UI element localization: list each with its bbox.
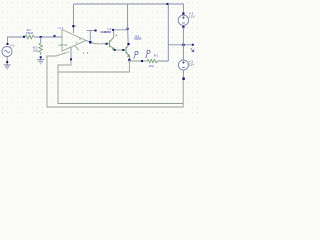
node: Q2 base junction: [122, 49, 124, 51]
wire: R1 to opamp: [34, 36, 62, 38]
svg-text:12V: 12V: [189, 63, 195, 67]
wire: pin 4 drop: [70, 47, 72, 60]
node: collector rail junction: [127, 28, 129, 30]
node: VS ground junction: [6, 61, 8, 63]
op-amp U1 triangle: [62, 30, 86, 52]
node: V2 top pin: [182, 13, 184, 15]
probe arrow glyph: [191, 48, 194, 51]
resistor R1 (horizontal): [25, 35, 34, 39]
wire: mid horizontal net: [168, 44, 193, 46]
source V2 (DC): [178, 15, 188, 25]
probe 2 circle: [146, 50, 150, 58]
transistor Q1: [108, 37, 115, 49]
wire: V3 bottom: [182, 70, 184, 79]
svg-text:10kΩ: 10kΩ: [26, 31, 33, 35]
node: rail branch junction: [167, 3, 169, 5]
node: VS top pin: [7, 43, 9, 45]
wire: offset pin 1 diagonal: [47, 53, 183, 107]
node: probe end: [192, 44, 194, 46]
wire: V2 to V3 column: [182, 27, 184, 60]
node: Q1 collector mark: [112, 29, 114, 31]
node: Q1 base junction: [106, 43, 108, 45]
node: R2 branch junction: [40, 36, 42, 38]
wire: Q1 collector riser: [114, 30, 128, 38]
ground (under VS): [4, 63, 11, 69]
wire: Q2 emitter drop: [128, 56, 130, 61]
offset pin 5 stub: [75, 46, 80, 51]
node: mid junction: [182, 44, 184, 46]
resistor W1 (horizontal): [147, 59, 157, 62]
svg-text:uA741: uA741: [58, 43, 68, 47]
ground (under R2): [37, 58, 44, 64]
wire: emitter to W1: [129, 60, 147, 62]
wire: VS top lead to input: [8, 37, 25, 45]
wire: output to Q1 base: [91, 43, 96, 44]
source VS (AC): [2, 47, 12, 57]
svg-text:1 5: 1 5: [83, 52, 89, 55]
pin number 3: [54, 35, 56, 37]
svg-text:2N2222A: 2N2222A: [134, 38, 142, 41]
node: pin7 entry: [72, 25, 74, 27]
svg-text:VS: VS: [10, 44, 15, 48]
svg-text:1kΩ: 1kΩ: [149, 64, 154, 68]
transistor Q2: [124, 45, 129, 56]
node: R2 ground junction: [40, 56, 42, 58]
wire: R2 top lead: [40, 37, 42, 43]
svg-text:U1: U1: [59, 26, 64, 30]
svg-text:12V: 12V: [189, 15, 195, 19]
wire: Q1 emitter to Q2 base: [115, 49, 124, 51]
node: emitter junction: [128, 59, 130, 61]
node: output junction: [89, 41, 91, 43]
svg-text:1kΩ: 1kΩ: [33, 48, 38, 52]
node: Q1 emitter junction: [114, 49, 116, 51]
node: V2 bottom pin: [182, 26, 184, 28]
resistor R2 (vertical): [39, 43, 43, 55]
node: feedback stub end: [95, 30, 97, 32]
wire: pin4 return to negative rail: [58, 60, 183, 104]
wire: V+ supply pin 7 riser: [73, 4, 75, 33]
svg-text:W1: W1: [154, 54, 159, 58]
wire: emitter return: [58, 60, 129, 72]
wire: W1 right lead and riser: [157, 4, 168, 61]
node: R1 left pin: [23, 36, 25, 38]
probe 1 circle: [134, 51, 138, 58]
source V3 (DC): [178, 60, 188, 70]
svg-text:COMPARATOR: COMPARATOR: [100, 31, 111, 34]
wire: output and feedback riser: [86, 31, 96, 43]
wire: top rail: [74, 4, 184, 14]
wire: Q2 collector riser from top rail: [127, 4, 129, 30]
node: V3 bottom junction: [182, 78, 184, 80]
node: Q2 collector junction: [127, 43, 129, 45]
node: probe junction: [141, 60, 143, 62]
pin mark near Q1 collector: [116, 35, 118, 37]
wire: VS bottom lead: [6, 57, 8, 64]
node: pin4 end: [70, 58, 72, 60]
